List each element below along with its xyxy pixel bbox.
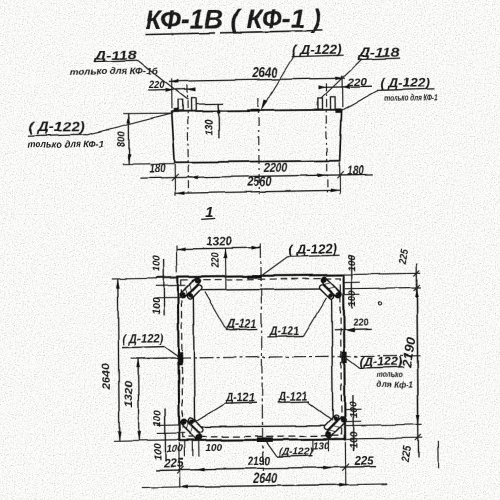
dimension 220 plan right xyxy=(334,317,371,333)
dimension 220 top-right xyxy=(318,76,372,89)
dimension 220 top (vertical text) xyxy=(210,249,226,291)
edge plate Д-122 right (filled) xyxy=(342,351,348,363)
corner plate Д-121 top-right xyxy=(316,276,343,303)
label (Д-122) plan top xyxy=(261,242,339,275)
label Д-118 top-left xyxy=(70,48,188,101)
section mark 1 xyxy=(201,204,215,221)
label Д-121 top-center leader xyxy=(267,298,327,338)
corner plate Д-121 top-left xyxy=(179,276,206,303)
small dims 100/100 bottom-left side xyxy=(153,409,186,461)
small dims 100/100 bottom-right xyxy=(345,395,362,451)
right dimension column 225/2190/225 xyxy=(345,248,423,465)
corner plate Д-122 right (filled) xyxy=(335,108,340,112)
label (Д-122) left with note xyxy=(27,113,173,150)
axis vertical (dash-dot) xyxy=(261,244,263,471)
extension lines bottom xyxy=(174,164,176,196)
dimension row 180|2200|180 xyxy=(141,159,373,182)
edge plate Д-122 left (filled) xyxy=(177,352,183,365)
right embedded plates Д-118 xyxy=(318,97,335,110)
label Д-121 bottom-left leader xyxy=(188,390,257,425)
dimension 2560 xyxy=(175,172,340,193)
label Д-121 top-left leader xyxy=(205,292,257,331)
edge plate Д-122 top (filled) xyxy=(248,275,262,279)
dimension row 225|2190|225 bottom xyxy=(156,455,377,473)
left embedded plates Д-118 xyxy=(178,98,196,111)
elevation body outline xyxy=(172,110,342,163)
label Д-118 top-right xyxy=(320,46,400,99)
plan hidden edge (dashed) xyxy=(181,278,342,437)
fold mark right xyxy=(437,441,439,468)
label (Д-122) top-center xyxy=(261,42,344,110)
corner plate Д-121 bottom-left xyxy=(180,414,207,441)
dimension 130 (recess depth) xyxy=(196,104,224,139)
dimension 220 top-left xyxy=(148,79,196,92)
dimension 1320 top xyxy=(176,236,261,273)
axis horizontal (dash-dot) xyxy=(131,355,421,358)
center plate Д-122 (filled) xyxy=(247,109,260,112)
title КФ-1В (КФ-1) xyxy=(145,3,322,35)
plan inner contour xyxy=(193,289,333,427)
plan outer contour xyxy=(178,275,345,441)
dimension 2640 bottom xyxy=(141,441,387,489)
small dims 100/100 top-left xyxy=(151,255,186,315)
small dims bottom edge 100 100 ... 130 xyxy=(166,439,329,457)
label (Д-122) plan right with note xyxy=(346,356,414,390)
left dimension column 2640 / 1320 xyxy=(100,278,179,441)
small hole mark xyxy=(378,301,381,304)
corner plate Д-121 bottom-right xyxy=(320,412,347,439)
dimension 800 left xyxy=(116,113,175,164)
label (Д-122) plan left xyxy=(122,331,179,358)
axis line left (dash-dot) xyxy=(187,85,188,195)
dimension 2640 top xyxy=(169,64,345,109)
label Д-121 bottom-center leader xyxy=(277,389,332,422)
edge plate Д-122 bottom (filled) xyxy=(257,437,273,442)
axis line center (dash) xyxy=(257,98,260,194)
corner plate Д-122 left (filled) xyxy=(174,108,179,112)
label (Д-122) plan bottom xyxy=(266,441,313,458)
label (Д-122) right with note xyxy=(342,75,439,110)
small dims 100/100 top-right xyxy=(344,254,361,309)
axis line right (dash-dot) xyxy=(326,83,327,193)
